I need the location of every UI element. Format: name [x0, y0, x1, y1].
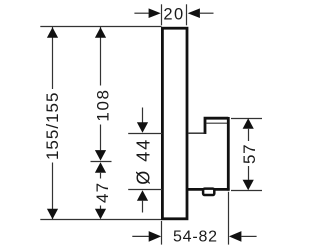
dim 54-82: left arrowhead: [149, 231, 162, 242]
handle bottom tab: [203, 189, 214, 195]
dim 57: lower line segment: [248, 166, 250, 180]
dim Ø44: top extension tick: [128, 133, 162, 135]
dim 20: left arrowhead: [149, 8, 161, 18]
dim 108: bottom arrowhead: [95, 150, 106, 161]
dim 57: top arrowhead: [243, 118, 254, 129]
dim 20: left extension line: [161, 4, 163, 25]
svg-text:57: 57: [240, 144, 259, 164]
dim 54-82: right arrowhead: [229, 231, 242, 242]
dim 20: right arrowhead: [188, 8, 200, 18]
dim 108: top arrowhead: [95, 27, 106, 38]
handle grip inner line: [206, 122, 228, 124]
dim 20: right arrow tail: [200, 12, 214, 14]
dim 47: lower line segment: [100, 206, 102, 210]
extension line top (from plate top-left corner): [40, 26, 161, 28]
handle body bottom edge: [187, 188, 230, 191]
dim 54-82: right extension line: [228, 192, 230, 245]
dim 108: upper line segment: [100, 27, 102, 86]
handle grip top step: [205, 118, 228, 134]
svg-text:Ø 44: Ø 44: [134, 138, 154, 185]
junction tick between dims 108 and 47: [91, 161, 112, 163]
dim 57: top extension line: [231, 118, 262, 120]
dim 57: bottom extension line: [231, 190, 262, 192]
dim Ø44: lower arrowhead pointing up: [137, 190, 148, 201]
extension line bottom (from plate bottom-left corner): [40, 219, 161, 221]
svg-text:54-82: 54-82: [173, 228, 218, 245]
svg-text:20: 20: [163, 6, 184, 24]
handle body front face: [227, 117, 230, 191]
dim 155/155: upper line segment: [52, 27, 54, 89]
handle body top edge: [189, 132, 206, 134]
dim 20: right extension line: [186, 4, 188, 25]
dim 155/155: lower line segment: [52, 163, 54, 220]
dim 155/155: bottom arrowhead: [47, 209, 58, 220]
dim 108: lower line segment: [100, 125, 102, 151]
svg-text:47: 47: [93, 182, 112, 203]
svg-text:108: 108: [94, 88, 113, 121]
svg-text:155/155: 155/155: [43, 92, 62, 160]
dim 47: top arrowhead: [95, 162, 106, 173]
dim 54-82: left extension line: [161, 221, 163, 245]
dim 57: bottom arrowhead: [243, 180, 254, 191]
dim 54-82: right arrow tail: [241, 235, 256, 237]
dim 155/155: top arrowhead: [47, 27, 58, 38]
dim Ø44: upper arrowhead pointing down: [137, 122, 148, 133]
dim 57: upper line segment: [248, 129, 250, 141]
dim 47: upper line segment: [100, 173, 102, 179]
dim Ø44: lower arrow tail: [142, 201, 144, 213]
dim Ø44: upper arrow tail: [142, 108, 144, 123]
mounting plate (side view): [162, 28, 187, 219]
dim 20: left arrow tail: [134, 12, 148, 14]
dim 47: bottom arrowhead: [95, 209, 106, 220]
dim Ø44: bottom extension tick: [128, 189, 162, 191]
dim 54-82: left arrow tail: [132, 235, 149, 237]
